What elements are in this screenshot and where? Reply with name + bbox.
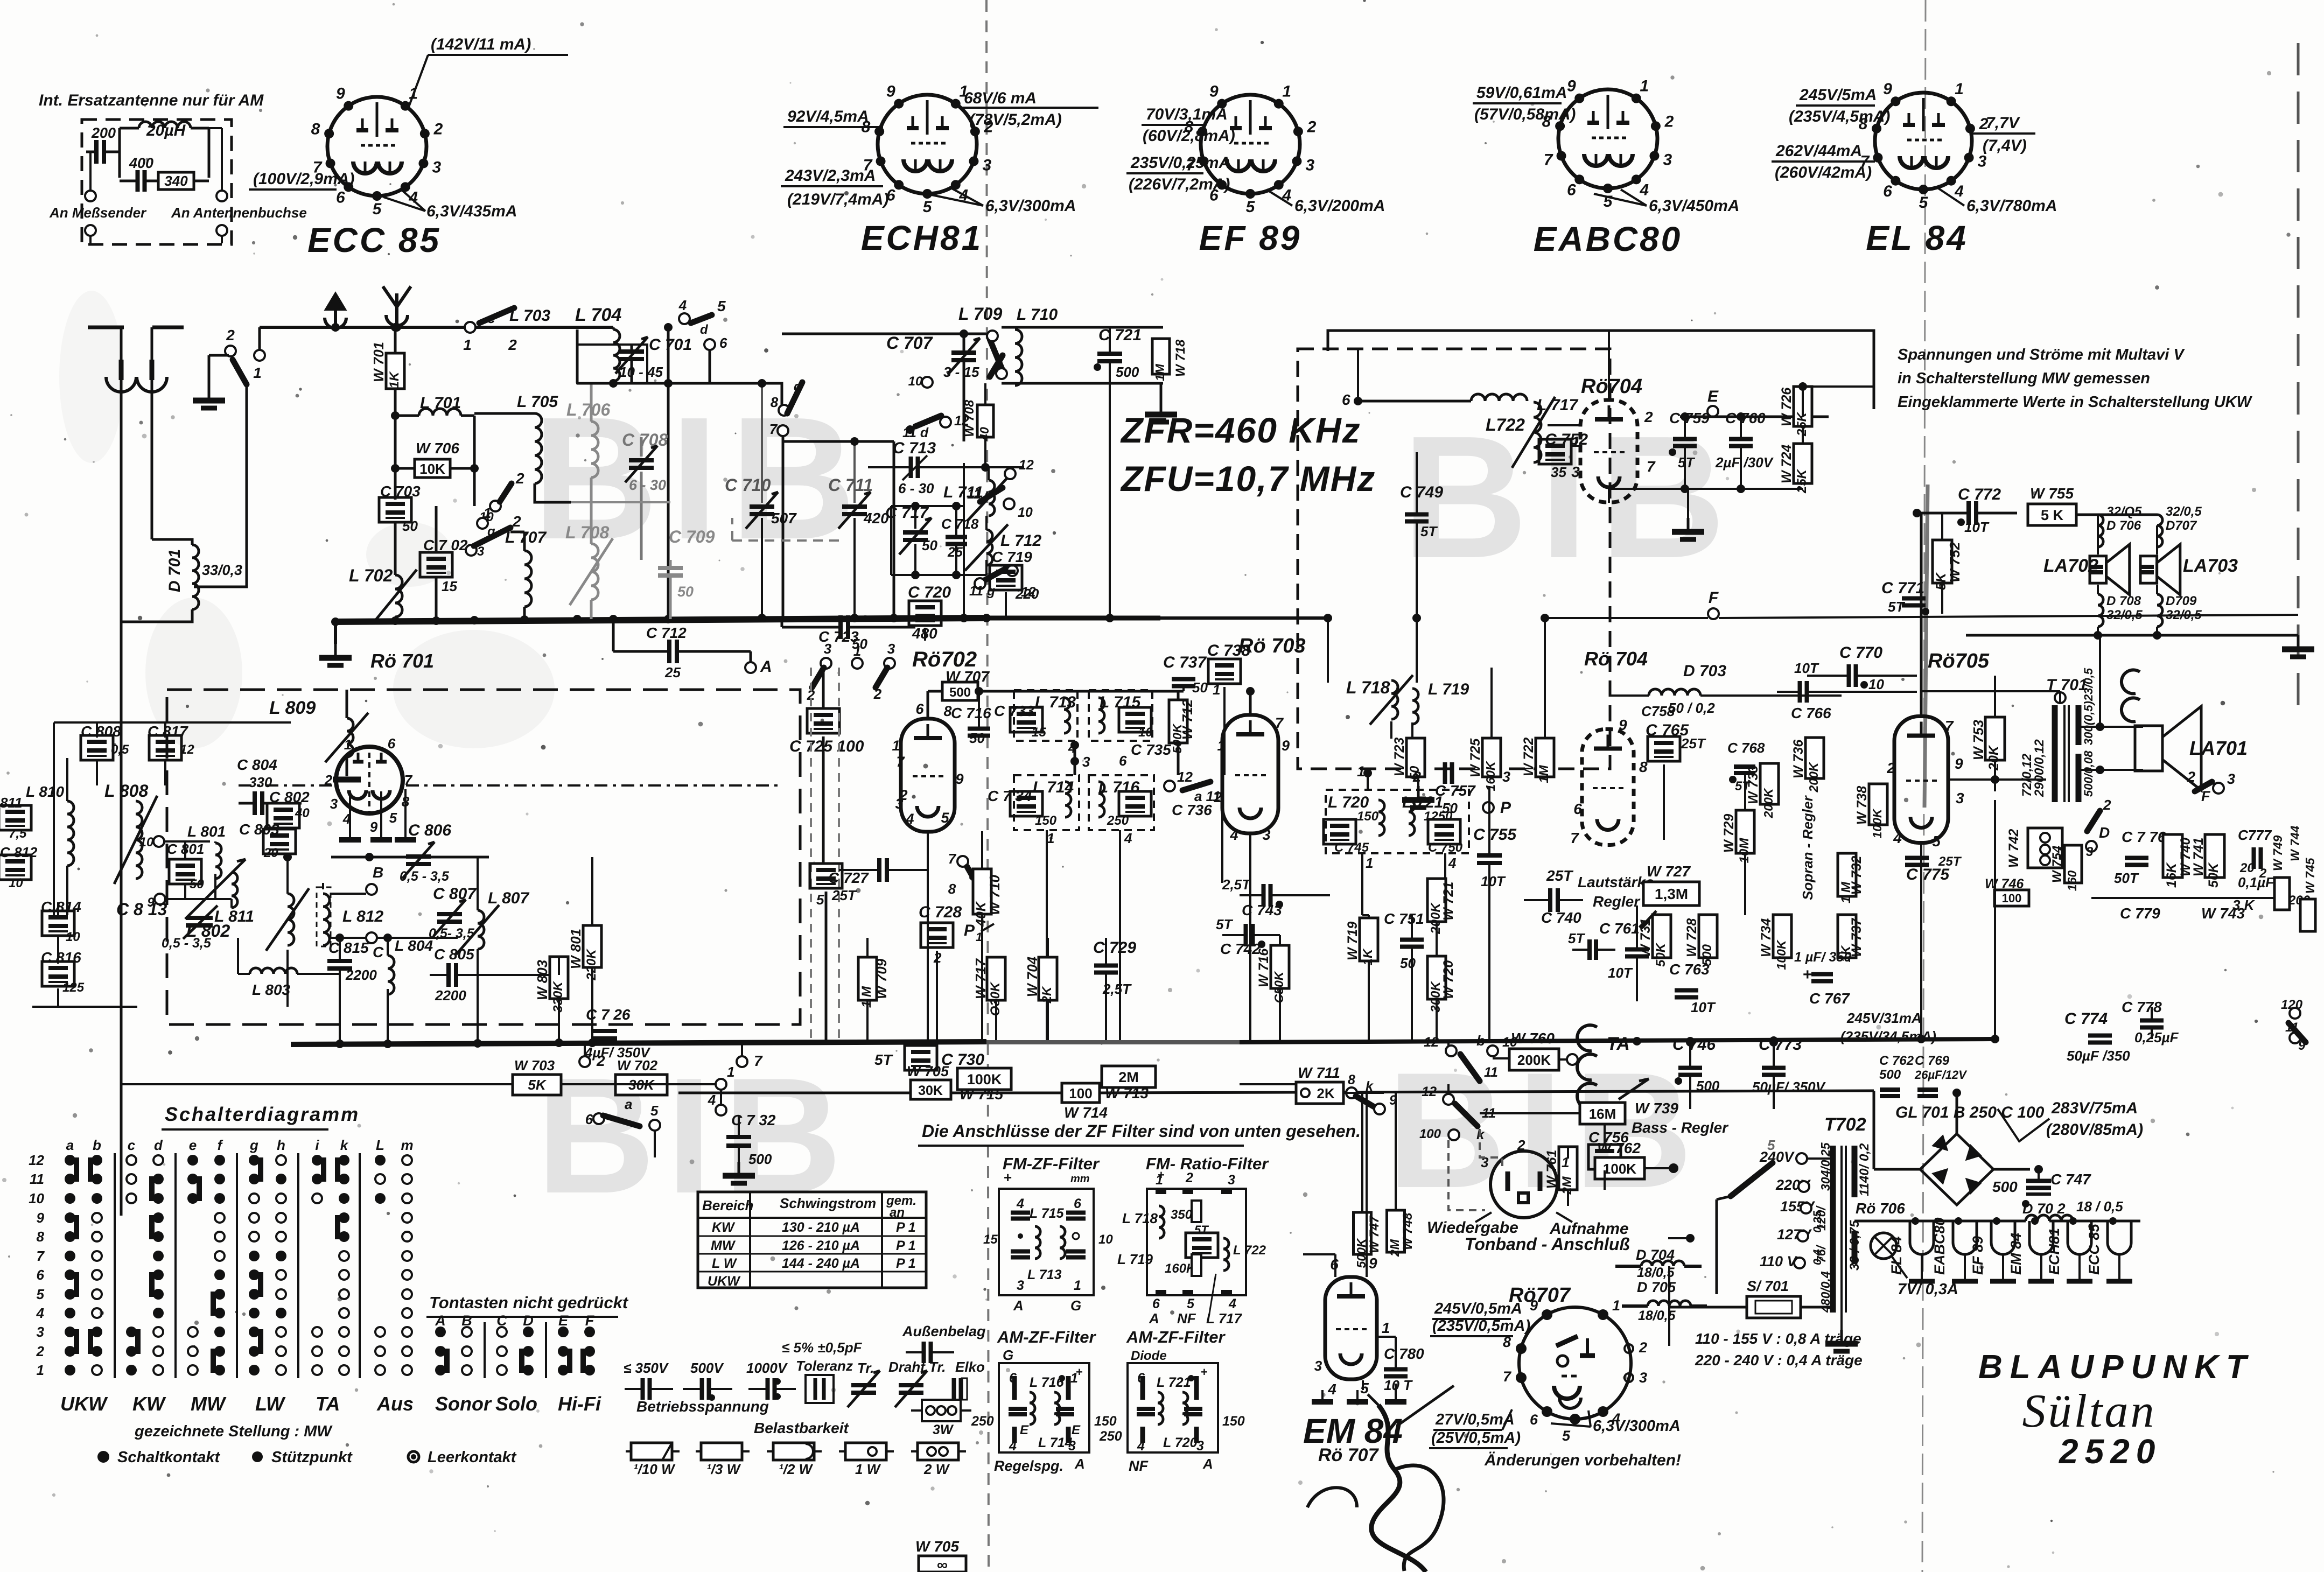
svg-text:L 708: L 708 — [565, 523, 609, 542]
wire speaker bus to T701 — [2079, 635, 2080, 705]
svg-text:200K: 200K — [1807, 762, 1821, 792]
svg-text:k: k — [340, 1137, 349, 1153]
svg-text:100: 100 — [1419, 1127, 1441, 1141]
wire L718 cluster — [1327, 635, 1328, 683]
svg-text:1K: 1K — [387, 371, 402, 388]
svg-text:8: 8 — [1348, 1072, 1355, 1087]
svg-text:2: 2 — [1307, 118, 1317, 136]
svg-text:3 - 15: 3 - 15 — [943, 364, 979, 380]
svg-text:18/0,5: 18/0,5 — [1638, 1308, 1676, 1323]
svg-text:4: 4 — [36, 1305, 45, 1321]
switch d top — [679, 313, 690, 324]
svg-text:3: 3 — [1314, 1358, 1322, 1374]
svg-text:L722: L722 — [1486, 415, 1525, 434]
resistor W752 5K — [1933, 540, 1952, 583]
svg-text:10K: 10K — [419, 461, 445, 477]
capacitor C757 50 — [1443, 762, 1447, 784]
svg-text:10: 10 — [29, 1190, 44, 1206]
svg-text:L 809: L 809 — [269, 698, 316, 718]
svg-text:30K: 30K — [918, 1083, 943, 1098]
svg-text:C 712: C 712 — [646, 624, 687, 641]
svg-text:Rö 701: Rö 701 — [370, 650, 434, 672]
svg-text:5T: 5T — [1568, 930, 1585, 946]
resistor W738 100K — [1869, 784, 1887, 825]
tontasten separators — [484, 1322, 486, 1378]
capacitor C725 100 — [807, 708, 839, 733]
switch diagram contact glyphs — [70, 1160, 76, 1179]
svg-text:50µF /350: 50µF /350 — [2067, 1048, 2130, 1064]
svg-text:9: 9 — [1530, 1297, 1538, 1314]
svg-text:d: d — [794, 380, 802, 394]
resistor W708 40 — [977, 405, 993, 437]
wire F-line to W722 — [1541, 614, 1549, 622]
svg-text:1: 1 — [1382, 1320, 1390, 1336]
wire EM84 column — [1318, 1093, 1319, 1131]
svg-text:a: a — [66, 1137, 74, 1153]
svg-text:25: 25 — [947, 545, 963, 560]
svg-text:2: 2 — [1185, 1170, 1193, 1185]
svg-text:68V/6 mA: 68V/6 mA — [964, 89, 1037, 107]
svg-text:6: 6 — [1342, 391, 1350, 408]
wire osc right rail — [963, 463, 965, 618]
transformer T702 windings — [1830, 1146, 1836, 1313]
svg-text:20: 20 — [2239, 861, 2255, 875]
svg-text:50K: 50K — [1654, 942, 1668, 967]
svg-text:C 806: C 806 — [408, 822, 451, 839]
svg-text:0,4: 0,4 — [1811, 1249, 1824, 1265]
svg-text:A: A — [435, 1313, 446, 1329]
svg-text:W 710: W 710 — [986, 874, 1003, 915]
resistor W734 100K — [1773, 915, 1791, 958]
wires T701 to LA701 — [2080, 726, 2143, 728]
svg-text:Stützpunkt: Stützpunkt — [271, 1449, 353, 1466]
svg-text:1: 1 — [463, 336, 472, 353]
svg-text:304/0,25: 304/0,25 — [1818, 1142, 1832, 1191]
Tonband connector shell — [1490, 1151, 1557, 1218]
resistor W725 160K — [1482, 738, 1501, 777]
svg-text:4: 4 — [905, 811, 914, 827]
wires top-left of box — [54, 721, 291, 724]
svg-text:3: 3 — [2227, 771, 2235, 787]
svg-text:7,7V: 7,7V — [1986, 114, 2021, 132]
wire EM84 pins down — [1362, 1380, 1364, 1390]
svg-text:15: 15 — [442, 578, 457, 594]
svg-text:EABC80: EABC80 — [1931, 1217, 1948, 1275]
tube Ro704 output triode — [1582, 729, 1634, 845]
svg-text:283V/75mA: 283V/75mA — [2051, 1099, 2138, 1117]
svg-text:3: 3 — [1262, 827, 1270, 843]
svg-text:32/Q5: 32/Q5 — [2106, 504, 2142, 519]
svg-text:EABC80: EABC80 — [1534, 220, 1683, 258]
svg-text:5: 5 — [1187, 1296, 1195, 1311]
svg-text:2: 2 — [873, 686, 882, 702]
svg-text:6: 6 — [585, 1111, 593, 1127]
svg-text:1,3M: 1,3M — [1655, 886, 1688, 902]
wire Ro702 anode to W707 — [927, 691, 929, 719]
svg-text:6: 6 — [1530, 1412, 1538, 1428]
svg-text:C 749: C 749 — [1400, 483, 1443, 501]
svg-text:C 770: C 770 — [1839, 644, 1882, 662]
svg-text:+: + — [1803, 966, 1812, 984]
svg-text:15: 15 — [983, 1232, 998, 1247]
svg-text:L 706: L 706 — [566, 400, 610, 419]
svg-text:2900/0,12: 2900/0,12 — [2032, 739, 2047, 797]
svg-text:E: E — [1020, 1423, 1029, 1437]
svg-text:Bereich: Bereich — [702, 1197, 753, 1213]
svg-text:+: + — [1158, 1168, 1165, 1182]
svg-text:50T: 50T — [2114, 870, 2139, 886]
node F line — [1708, 608, 1719, 619]
svg-text:ECH81: ECH81 — [861, 219, 983, 257]
svg-text:6: 6 — [1567, 181, 1576, 199]
table Bereich Schwingstrom — [698, 1192, 926, 1288]
svg-text:G: G — [1070, 1297, 1081, 1314]
svg-text:100: 100 — [1069, 1085, 1092, 1101]
jack symbols phones — [2122, 670, 2140, 693]
svg-text:Änderungen vorbehalten!: Änderungen vorbehalten! — [1484, 1451, 1681, 1469]
svg-text:∞: ∞ — [937, 1556, 948, 1572]
svg-text:(226V/7,2mA): (226V/7,2mA) — [1129, 176, 1230, 193]
svg-text:C 721: C 721 — [1098, 326, 1142, 344]
svg-text:6,3V/200mA: 6,3V/200mA — [1294, 197, 1385, 215]
svg-text:9: 9 — [336, 85, 345, 102]
svg-text:16M: 16M — [1589, 1106, 1616, 1122]
svg-text:1M: 1M — [1537, 764, 1551, 783]
ground W718 — [1160, 401, 1163, 415]
terminal 1 main line — [254, 350, 265, 361]
svg-text:2K: 2K — [1317, 1085, 1334, 1101]
svg-text:262V/44mA: 262V/44mA — [1775, 142, 1862, 160]
svg-text:9: 9 — [955, 771, 963, 787]
svg-text:Sültan: Sültan — [2022, 1385, 2157, 1437]
svg-text:7: 7 — [896, 754, 905, 770]
svg-text:500: 500 — [748, 1151, 772, 1167]
jacks TA — [1577, 1025, 1597, 1051]
svg-text:Schaltkontakt: Schaltkontakt — [117, 1449, 220, 1466]
svg-text:1: 1 — [1612, 1297, 1620, 1314]
legend Schaltkontakt — [97, 1451, 109, 1463]
wire det bottom — [1608, 489, 1610, 503]
svg-text:6: 6 — [1883, 183, 1892, 200]
resistor W704 2K — [1039, 957, 1057, 1000]
svg-text:500V: 500V — [690, 1360, 724, 1376]
coil L717 — [1358, 400, 1471, 403]
resistor W718 1M — [1152, 339, 1170, 374]
svg-text:1: 1 — [976, 930, 982, 944]
wire grid line mid — [331, 856, 489, 859]
svg-text:W 742: W 742 — [2006, 829, 2021, 868]
svg-text:MW: MW — [711, 1238, 736, 1253]
svg-text:D 708: D 708 — [2106, 594, 2141, 608]
svg-text:2: 2 — [36, 1343, 45, 1359]
svg-text:3: 3 — [895, 796, 903, 812]
box FM-Ratio-Filter — [1147, 1189, 1246, 1295]
svg-text:Rö 706: Rö 706 — [1856, 1200, 1905, 1217]
wires L801 cluster — [164, 840, 210, 843]
vertical x2466 lower — [1327, 618, 1329, 683]
svg-text:25T: 25T — [1546, 867, 1574, 884]
svg-text:2: 2 — [2187, 769, 2195, 785]
svg-text:5T: 5T — [1735, 779, 1751, 794]
resistor W701 1K — [394, 327, 397, 354]
svg-text:L 812: L 812 — [342, 908, 383, 925]
resistor W720 300K — [1427, 956, 1446, 999]
svg-text:12: 12 — [180, 742, 194, 757]
resistor W742 jack — [2028, 828, 2062, 868]
svg-text:W 718: W 718 — [1173, 339, 1188, 377]
svg-text:L 721: L 721 — [1157, 1375, 1191, 1390]
svg-text:12: 12 — [1177, 769, 1193, 785]
switch a bottom — [593, 1113, 604, 1124]
resistor W740 16K — [2163, 834, 2182, 878]
svg-text:1: 1 — [1213, 682, 1220, 698]
svg-text:D 705: D 705 — [1637, 1279, 1676, 1295]
svg-text:D707: D707 — [2166, 518, 2197, 533]
svg-text:F: F — [2201, 788, 2211, 804]
resistor W714 100 — [1062, 1083, 1100, 1103]
svg-text:Sopran - Regler: Sopran - Regler — [1800, 795, 1816, 900]
svg-text:P 1: P 1 — [896, 1256, 916, 1271]
svg-text:12: 12 — [1019, 458, 1034, 473]
gray link line horizontal — [571, 501, 670, 503]
svg-text:C 762: C 762 — [1879, 1054, 1914, 1068]
svg-text:1 µF/ 350: 1 µF/ 350 — [1794, 950, 1851, 965]
svg-text:Schalterdiagramm: Schalterdiagramm — [165, 1103, 360, 1125]
tube ECH81 symbol — [878, 95, 977, 194]
svg-text:10T: 10T — [1794, 660, 1819, 676]
svg-text:Aus: Aus — [376, 1393, 414, 1415]
switch 7-a-8 under Ro702 — [957, 856, 968, 867]
wire k switch feed — [1447, 1084, 1450, 1095]
svg-text:A: A — [1013, 1297, 1024, 1314]
svg-text:EM 84: EM 84 — [2008, 1233, 2024, 1275]
svg-text:C: C — [373, 944, 384, 960]
svg-text:1 M: 1 M — [1839, 881, 1853, 903]
grounds EM84 — [1321, 1390, 1324, 1400]
heater tubes — [1910, 1221, 1934, 1254]
plug left 1 — [120, 327, 123, 1216]
svg-text:1M: 1M — [1153, 363, 1167, 381]
svg-text:C 774: C 774 — [2064, 1010, 2108, 1028]
svg-text:8: 8 — [771, 394, 779, 410]
svg-text:S/ 701: S/ 701 — [1747, 1278, 1789, 1294]
svg-text:C 708: C 708 — [622, 430, 668, 450]
svg-text:1250: 1250 — [1424, 809, 1453, 824]
svg-text:¹/3 W: ¹/3 W — [706, 1461, 741, 1477]
svg-text:3: 3 — [1639, 1370, 1647, 1386]
svg-text:5: 5 — [1932, 833, 1941, 850]
svg-text:4: 4 — [678, 297, 687, 313]
svg-text:5: 5 — [816, 892, 824, 908]
svg-text:C 778: C 778 — [2122, 999, 2162, 1015]
svg-text:220: 220 — [1015, 586, 1039, 602]
dashed tonband link — [1480, 1129, 1502, 1167]
resistor W733 200K — [1760, 763, 1779, 804]
switch b — [1446, 1045, 1457, 1056]
svg-text:C 7 02: C 7 02 — [423, 537, 468, 553]
svg-text:5: 5 — [373, 200, 382, 218]
svg-text:3: 3 — [1502, 769, 1510, 785]
svg-text:32/0,5: 32/0,5 — [2166, 504, 2202, 519]
wire switch g to L707 — [510, 531, 524, 534]
svg-text:C 737: C 737 — [1163, 654, 1207, 671]
dashed link C710 C711 — [732, 539, 840, 542]
svg-text:9: 9 — [37, 1210, 45, 1226]
svg-text:W 755: W 755 — [2030, 485, 2074, 502]
svg-text:C 728: C 728 — [919, 903, 962, 921]
svg-text:C 779: C 779 — [2120, 905, 2160, 922]
svg-text:A: A — [1202, 1456, 1213, 1472]
tube ECC85 symbol — [327, 97, 426, 196]
svg-text:4: 4 — [1124, 830, 1132, 846]
svg-text:C 7 34: C 7 34 — [988, 788, 1032, 804]
svg-text:6: 6 — [1074, 1196, 1082, 1211]
svg-text:W 723: W 723 — [1392, 738, 1407, 776]
resistor W761 2M — [1559, 1147, 1577, 1190]
svg-text:e: e — [189, 1137, 197, 1153]
svg-text:C 740: C 740 — [1541, 909, 1581, 926]
resistor W723 50 — [1406, 738, 1425, 777]
svg-text:C777: C777 — [2238, 827, 2272, 843]
resistor W739 16M Bass-Regler — [1580, 1103, 1625, 1124]
svg-text:W 701: W 701 — [370, 342, 387, 382]
svg-text:A: A — [760, 658, 772, 676]
svg-text:TA: TA — [316, 1393, 340, 1415]
switch g upper — [490, 501, 501, 511]
svg-text:≤ 5% ±0,5pF: ≤ 5% ±0,5pF — [782, 1339, 863, 1356]
svg-text:3: 3 — [1306, 156, 1315, 174]
svg-text:W 705: W 705 — [907, 1063, 949, 1079]
svg-text:+: + — [1076, 1365, 1083, 1379]
svg-text:W 716: W 716 — [1256, 948, 1271, 987]
svg-text:3: 3 — [1978, 153, 1987, 171]
svg-text:6 - 30: 6 - 30 — [898, 480, 934, 496]
coil D709 — [2157, 594, 2162, 627]
wire top loop FM det — [1328, 331, 1874, 409]
svg-text:0,5: 0,5 — [111, 742, 129, 757]
svg-text:5: 5 — [1360, 1380, 1369, 1396]
svg-text:C 733: C 733 — [994, 703, 1034, 719]
svg-text:P 1: P 1 — [896, 1238, 916, 1253]
svg-text:k: k — [1366, 1079, 1374, 1094]
svg-text:7: 7 — [1503, 1369, 1512, 1385]
svg-text:240V: 240V — [1759, 1149, 1795, 1165]
wire Ro705 pin9 to W753 — [1949, 778, 2046, 781]
svg-text:9: 9 — [1619, 717, 1627, 733]
svg-text:C 763: C 763 — [1669, 961, 1710, 978]
junctions main bus — [758, 614, 766, 622]
svg-text:Schwingstrom: Schwingstrom — [780, 1195, 876, 1211]
resistor W741 50K — [2205, 834, 2224, 878]
svg-text:5: 5 — [1246, 198, 1256, 216]
heater chain wire — [1854, 1220, 2026, 1223]
wire L717 down to dashed box — [1357, 349, 1359, 401]
svg-text:KW: KW — [132, 1393, 166, 1415]
svg-text:(260V/42mA): (260V/42mA) — [1775, 164, 1872, 181]
svg-text:243V/2,3mA: 243V/2,3mA — [785, 167, 876, 185]
svg-text:50: 50 — [402, 518, 418, 534]
svg-text:350: 350 — [1171, 1208, 1193, 1222]
svg-text:Rö 703: Rö 703 — [1238, 635, 1306, 657]
svg-text:b: b — [1476, 1033, 1485, 1049]
svg-text:C 769: C 769 — [1915, 1054, 1950, 1068]
svg-text:ECH81: ECH81 — [2046, 1228, 2062, 1275]
svg-text:L 811: L 811 — [214, 908, 254, 925]
svg-text:5 K: 5 K — [2041, 507, 2064, 523]
svg-text:72/0,12: 72/0,12 — [2020, 753, 2034, 797]
svg-text:UKW: UKW — [708, 1274, 741, 1289]
svg-text:2 W: 2 W — [923, 1461, 950, 1477]
svg-text:2: 2 — [512, 513, 521, 530]
svg-text:2µF /30V: 2µF /30V — [1715, 454, 1774, 471]
svg-text:340: 340 — [164, 173, 188, 189]
coil D701 — [192, 545, 199, 609]
wire W753 down — [1994, 800, 1996, 1039]
svg-text:1140/ 0,2: 1140/ 0,2 — [1857, 1143, 1872, 1196]
svg-text:Tontasten nicht gedrückt: Tontasten nicht gedrückt — [429, 1293, 629, 1312]
svg-text:4: 4 — [1016, 1196, 1024, 1211]
wire long bottom bus — [678, 1092, 1062, 1094]
svg-text:40: 40 — [295, 806, 310, 820]
svg-text:W 706: W 706 — [416, 440, 459, 457]
svg-text:Außenbelag: Außenbelag — [902, 1323, 986, 1339]
svg-text:100K: 100K — [1603, 1161, 1636, 1177]
junction E line — [1798, 382, 1807, 391]
svg-text:10: 10 — [1868, 676, 1884, 692]
switch pair top 3-1 — [821, 658, 831, 669]
svg-text:2: 2 — [433, 120, 443, 138]
svg-text:LW: LW — [255, 1393, 286, 1415]
svg-text:245V/0,5mA: 245V/0,5mA — [1434, 1300, 1522, 1317]
bus right section — [1238, 1039, 1992, 1042]
wire C707 column down — [963, 383, 965, 441]
svg-text:25T: 25T — [1938, 854, 1962, 869]
svg-text:E: E — [1072, 1423, 1081, 1437]
svg-text:5: 5 — [1919, 194, 1929, 212]
svg-text:1 W: 1 W — [855, 1461, 881, 1477]
svg-text:ZFU=10,7 MHz: ZFU=10,7 MHz — [1120, 459, 1376, 499]
svg-text:W 739: W 739 — [1635, 1100, 1678, 1117]
svg-text:ECC 85: ECC 85 — [2086, 1223, 2102, 1275]
svg-text:32/0,5: 32/0,5 — [2106, 608, 2143, 622]
svg-text:35: 35 — [1551, 464, 1566, 480]
svg-text:Die Anschlüsse der ZF Filter s: Die Anschlüsse der ZF Filter sind von un… — [922, 1121, 1361, 1141]
svg-text:25K: 25K — [1795, 468, 1809, 494]
bus y1148 right extension — [1160, 616, 1328, 620]
wire W760 row to TA — [1493, 1057, 1509, 1059]
wire bottom tone stack — [2091, 897, 2278, 899]
svg-text:3: 3 — [887, 641, 895, 657]
svg-text:3: 3 — [1571, 464, 1580, 480]
T702 selector lever — [1731, 1163, 1773, 1196]
wire antenna box right terminal — [221, 128, 223, 192]
filter box L713 — [1014, 690, 1077, 741]
svg-text:EL 84: EL 84 — [1888, 1236, 1905, 1275]
ground bus main — [334, 618, 986, 622]
wire plug2 to D701 — [152, 539, 192, 545]
svg-text:L 808: L 808 — [104, 781, 148, 801]
svg-text:200K: 200K — [1517, 1052, 1551, 1068]
terminal 2 bottom — [579, 1056, 590, 1067]
tube Ro703 — [1222, 715, 1278, 833]
svg-text:(60V/2,8mA): (60V/2,8mA) — [1143, 127, 1235, 145]
svg-text:2: 2 — [1639, 1339, 1647, 1356]
svg-text:2: 2 — [1644, 409, 1653, 425]
svg-text:C 727: C 727 — [828, 869, 869, 886]
svg-text:50: 50 — [1400, 955, 1416, 971]
svg-text:16K: 16K — [2164, 862, 2179, 888]
svg-text:d: d — [700, 322, 709, 337]
